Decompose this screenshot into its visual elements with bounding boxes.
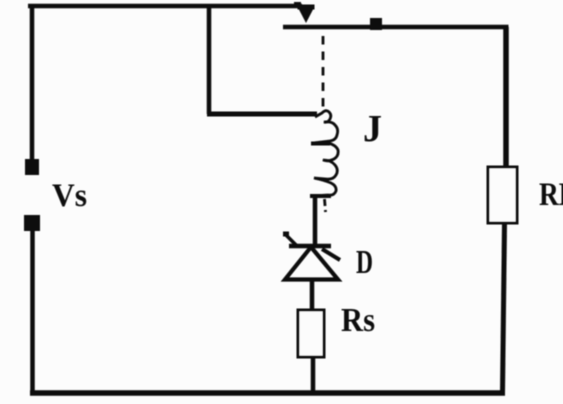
- dashed linkage line upper: [322, 36, 325, 113]
- relay coil J: [311, 111, 338, 196]
- switch armature arrow bar: [298, 5, 315, 10]
- source Vs terminal top: [25, 159, 39, 175]
- switch pivot blob: [294, 2, 301, 7]
- source Vs terminal bottom: [24, 215, 40, 231]
- wire left vertical upper: [30, 4, 35, 160]
- diode D cathode bar: [289, 244, 331, 249]
- junction node square: [370, 18, 382, 30]
- coil bottom bar: [310, 194, 331, 198]
- diode D cathode right tail: [322, 249, 340, 260]
- wire right vertical lower: [503, 223, 505, 393]
- resistor Rs box: [298, 310, 324, 357]
- svg-text:RL: RL: [539, 177, 563, 213]
- resistor RL box: [488, 167, 517, 223]
- diode D triangle: [285, 247, 338, 280]
- switch armature arrowhead: [299, 10, 313, 24]
- wire top horizontal: [28, 4, 302, 9]
- wire coil to diode: [313, 196, 318, 246]
- diode D left tail end blob: [283, 232, 289, 237]
- svg-text:J: J: [363, 108, 382, 150]
- wire Rs to bottom: [311, 356, 316, 393]
- dashed linkage line lower: [325, 199, 326, 212]
- svg-text:Vs: Vs: [52, 178, 87, 214]
- wire bottom horizontal: [30, 390, 505, 396]
- wire right vertical upper: [503, 27, 509, 168]
- svg-text:D: D: [356, 244, 373, 281]
- coil crossing bar: [311, 142, 330, 146]
- wire diode to Rs: [310, 279, 315, 311]
- wire left vertical lower: [30, 230, 35, 393]
- svg-text:Rs: Rs: [341, 302, 375, 339]
- wire branch vertical: [207, 4, 212, 114]
- wire branch horizontal to coil: [207, 112, 317, 117]
- switch contact line: [283, 25, 509, 30]
- diode D cathode left tail: [285, 234, 297, 246]
